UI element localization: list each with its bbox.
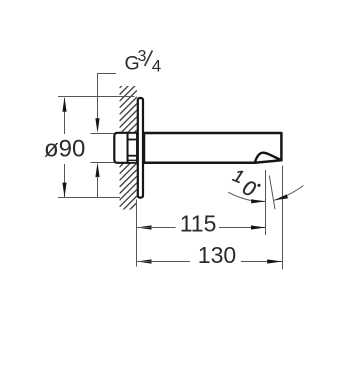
- svg-text:130: 130: [198, 242, 236, 268]
- angle arc right: [274, 186, 303, 201]
- dim line d90 lower: [64, 164, 66, 197]
- angle arrow left-pointing: [274, 194, 288, 200]
- dim 115 line right: [219, 227, 266, 229]
- flange bottom extension line: [58, 197, 120, 199]
- nut side section: [128, 133, 137, 163]
- dim 115 right arrow: [251, 225, 266, 229]
- angle 10 deg slanted line: [269, 175, 275, 209]
- nut bottom extension line: [91, 162, 115, 164]
- leader G3/4 arrow down: [95, 118, 99, 133]
- spout body: [144, 133, 281, 163]
- label degree dot: [257, 184, 260, 187]
- flange: [138, 98, 143, 198]
- flange top extension line: [58, 96, 135, 98]
- nut facet line upper: [128, 139, 137, 141]
- dim d90 arrow up: [62, 97, 66, 112]
- nut facet line bottom: [128, 159, 137, 161]
- nut dim arrow up: [95, 162, 99, 177]
- nut dim lower leg: [97, 176, 99, 198]
- svg-text:ø90: ø90: [44, 135, 85, 162]
- dim 130 right arrow: [267, 259, 282, 263]
- spout outlet lip: [255, 153, 282, 163]
- angle arc left: [228, 192, 265, 201]
- dim 130 line left: [137, 261, 190, 263]
- extension line wall face: [136, 200, 138, 267]
- nut top extension line: [91, 133, 115, 135]
- dim 115 line left: [137, 227, 176, 229]
- extension line spout tip vertical: [265, 170, 267, 235]
- svg-text:115: 115: [180, 211, 217, 237]
- dim 130 left arrow: [137, 259, 152, 263]
- extension line spout end: [282, 166, 284, 270]
- svg-text:3: 3: [138, 48, 147, 65]
- dim 115 left arrow: [137, 225, 152, 229]
- wall hatching: [120, 71, 138, 221]
- leader G3/4 horizontal: [98, 74, 117, 120]
- angle arrow right-pointing: [251, 199, 265, 203]
- dim line d90 upper: [64, 98, 66, 134]
- dim d90 arrow down: [62, 183, 66, 198]
- nut front face: [114, 133, 127, 163]
- nut facet line lower: [128, 155, 137, 157]
- svg-text:4: 4: [152, 57, 161, 76]
- dim 130 line right: [241, 261, 282, 263]
